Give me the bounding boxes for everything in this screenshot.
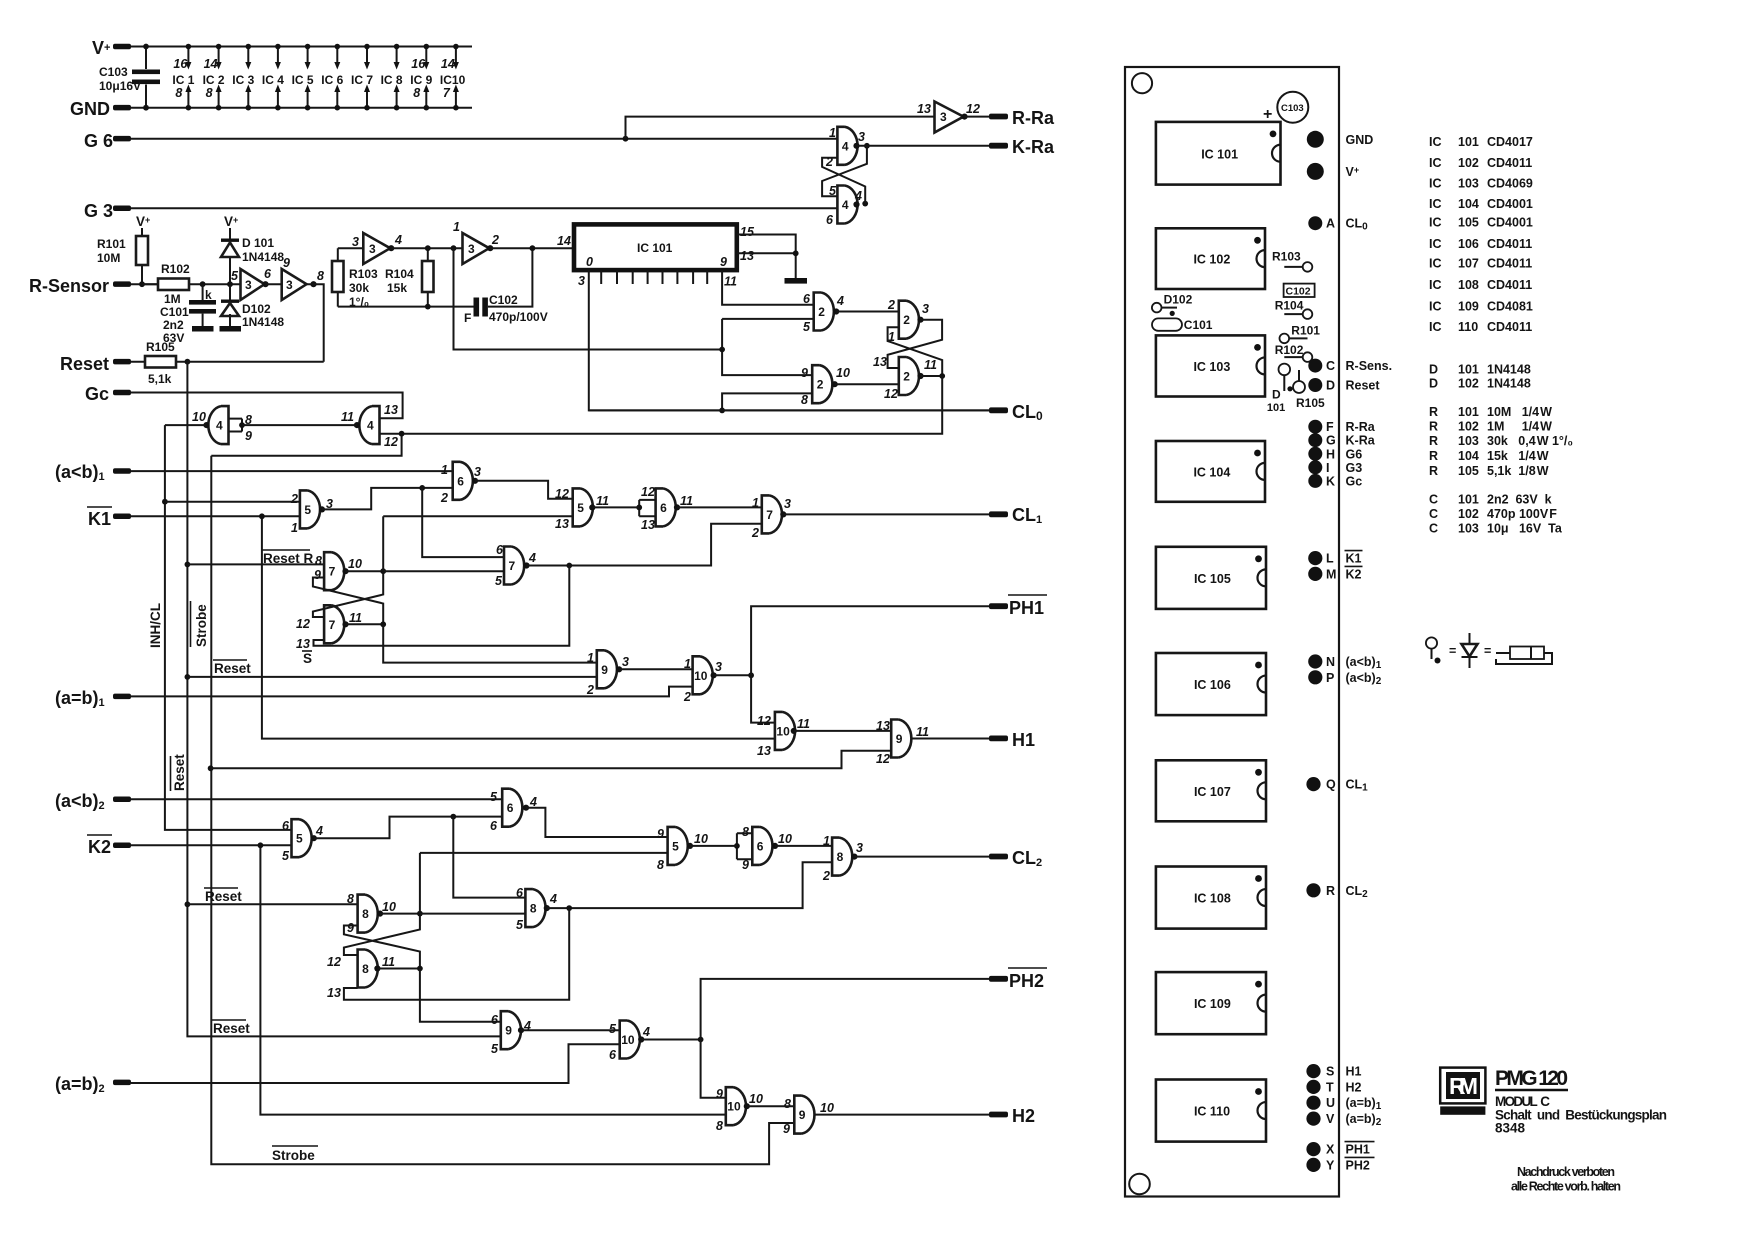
svg-text:R102: R102 xyxy=(161,262,190,276)
node gate output xyxy=(674,504,680,510)
gate IC4 1-2-3 NAND xyxy=(837,127,857,165)
wire 7a up to 5b xyxy=(382,516,384,571)
svg-text:7: 7 xyxy=(443,86,451,100)
svg-text:8: 8 xyxy=(657,858,664,872)
wire 6c tap down xyxy=(453,817,525,898)
svg-text:11: 11 xyxy=(596,494,609,508)
pad F xyxy=(1308,420,1322,434)
svg-text:CD4017: CD4017 xyxy=(1487,135,1533,149)
pad A xyxy=(1308,216,1322,230)
svg-text:13: 13 xyxy=(876,719,890,733)
wire C102 right xyxy=(488,248,533,306)
svg-text:2: 2 xyxy=(491,233,499,247)
svg-text:5: 5 xyxy=(282,849,290,863)
gate IC6 12-13-11 NAND xyxy=(656,488,676,526)
svg-text:102: 102 xyxy=(1458,420,1479,434)
wire pin3 to CL0 xyxy=(589,270,989,410)
svg-text:8: 8 xyxy=(175,86,182,100)
svg-text:2: 2 xyxy=(683,690,691,704)
pad D xyxy=(1308,378,1322,392)
svg-text:Reset: Reset xyxy=(205,889,242,904)
svg-text:0: 0 xyxy=(586,255,593,269)
svg-text:R103: R103 xyxy=(1272,250,1301,264)
node sb1 xyxy=(208,765,214,771)
wire osc in xyxy=(338,247,364,249)
svg-text:14: 14 xyxy=(204,57,218,71)
wire reset to inv xyxy=(187,361,323,363)
svg-text:13: 13 xyxy=(384,403,398,417)
svg-text:D: D xyxy=(1326,379,1335,393)
IC4 power pins xyxy=(277,47,279,108)
node gate output xyxy=(687,843,693,849)
node K1 tap xyxy=(259,513,265,519)
svg-text:10M: 10M xyxy=(97,251,120,265)
svg-text:Nachdruck verboten: Nachdruck verboten xyxy=(1517,1165,1615,1179)
svg-text:S: S xyxy=(1326,1065,1334,1079)
gate IC8 8-9-10 NAND xyxy=(358,895,378,933)
svg-text:103: 103 xyxy=(1458,522,1479,536)
node gate output xyxy=(472,478,478,484)
svg-text:11: 11 xyxy=(341,410,354,424)
board hole bottom xyxy=(1129,1174,1150,1195)
capacitor C102 xyxy=(474,298,480,317)
svg-text:IC: IC xyxy=(1429,135,1442,149)
gate IC10 12-13-11 NAND xyxy=(775,712,795,750)
svg-text:5: 5 xyxy=(296,832,303,846)
svg-text:IC: IC xyxy=(1429,237,1442,251)
svg-text:10: 10 xyxy=(749,1092,763,1106)
node gate output xyxy=(744,1103,750,1109)
svg-text:11: 11 xyxy=(797,717,810,731)
svg-text:G: G xyxy=(1326,434,1336,448)
node 6d in xyxy=(734,843,740,849)
svg-text:R104: R104 xyxy=(385,267,414,281)
gate IC7 1-2-3 NAND xyxy=(762,495,782,533)
svg-text:I: I xyxy=(1326,461,1329,475)
gate IC5 6-5-4 NAND xyxy=(292,819,312,857)
svg-text:6: 6 xyxy=(507,801,514,815)
svg-text:5: 5 xyxy=(490,790,498,804)
svg-text:M: M xyxy=(1326,567,1336,581)
svg-text:H2: H2 xyxy=(1012,1106,1035,1126)
gate IC2 9-8-10 NAND xyxy=(812,365,832,403)
wire pin11 xyxy=(722,270,814,305)
svg-text:CD4011: CD4011 xyxy=(1487,278,1532,292)
gate IC4 5-4-6 NAND xyxy=(837,186,857,224)
node inh tap xyxy=(162,499,168,505)
svg-text:5: 5 xyxy=(577,501,584,515)
svg-text:4: 4 xyxy=(394,233,402,247)
wire 9a out xyxy=(619,668,693,670)
IC101 bottom pins xyxy=(601,270,707,284)
gate IC5 12-13-11 NAND xyxy=(573,488,593,526)
svg-text:9: 9 xyxy=(283,256,290,270)
svg-text:9: 9 xyxy=(716,1087,723,1101)
node 6b in xyxy=(636,505,642,511)
wire 7c loop to 7b13 xyxy=(314,566,570,646)
svg-text:2: 2 xyxy=(751,526,759,540)
svg-text:3: 3 xyxy=(856,841,863,855)
pad P xyxy=(1308,670,1322,684)
svg-text:CD4011: CD4011 xyxy=(1487,257,1532,271)
svg-text:K-Ra: K-Ra xyxy=(1346,434,1376,448)
wire 9c out xyxy=(521,1029,620,1031)
svg-text:Reset: Reset xyxy=(213,1021,250,1036)
wire 9b pin12 xyxy=(211,751,892,769)
svg-text:D102: D102 xyxy=(242,302,271,316)
wire node down xyxy=(454,248,723,349)
svg-text:IC: IC xyxy=(1429,177,1442,191)
svg-text:L: L xyxy=(1326,552,1334,566)
svg-text:109: 109 xyxy=(1458,300,1479,314)
node gate output xyxy=(388,245,394,251)
IC IC101 CD4017 xyxy=(574,224,737,270)
svg-text:6: 6 xyxy=(757,839,764,853)
svg-text:(a<b)1: (a<b)1 xyxy=(55,462,105,483)
wire pin14 node to gates xyxy=(722,319,814,375)
node gate output xyxy=(311,835,317,841)
pad G xyxy=(1308,433,1322,447)
svg-text:101: 101 xyxy=(1458,363,1479,377)
svg-text:4: 4 xyxy=(528,551,536,565)
wire 6d tie xyxy=(737,833,752,859)
svg-text:4: 4 xyxy=(216,419,223,433)
wire 6a out xyxy=(475,481,573,499)
svg-text:103: 103 xyxy=(1458,177,1479,191)
wire a=b2 line xyxy=(131,1044,620,1083)
svg-text:12: 12 xyxy=(884,387,898,401)
svg-text:INH/CL: INH/CL xyxy=(148,603,163,648)
gate IC7 6-5-4 NAND xyxy=(504,547,524,585)
svg-text:3: 3 xyxy=(858,130,865,144)
svg-text:IC 107: IC 107 xyxy=(1194,785,1231,799)
svg-text:C101: C101 xyxy=(1184,318,1213,332)
svg-text:8: 8 xyxy=(530,902,537,916)
svg-text:1: 1 xyxy=(441,463,448,477)
wire G3 line xyxy=(131,207,837,209)
svg-text:A: A xyxy=(1326,217,1335,231)
wire a=b1 line xyxy=(131,687,693,697)
svg-text:(a=b)1: (a=b)1 xyxy=(55,688,105,709)
svg-text:Gc: Gc xyxy=(1346,474,1363,488)
gate IC5 9-8-10 NAND xyxy=(668,827,688,865)
legend diode symbol xyxy=(1469,633,1471,668)
wire Reset bus xyxy=(187,362,500,1037)
svg-text:F: F xyxy=(1326,420,1334,434)
svg-text:2: 2 xyxy=(817,378,824,392)
svg-text:6: 6 xyxy=(516,886,524,900)
node gate output xyxy=(342,568,348,574)
wire gateB pin8 xyxy=(722,393,812,410)
svg-text:4: 4 xyxy=(836,294,844,308)
svg-text:PH1: PH1 xyxy=(1009,598,1044,618)
svg-text:9: 9 xyxy=(799,1108,806,1122)
ground xyxy=(785,278,808,284)
wire 8a to 5d pin8 xyxy=(420,852,668,854)
svg-text:14: 14 xyxy=(557,234,571,248)
svg-text:IC: IC xyxy=(1429,156,1442,170)
pad C xyxy=(1308,359,1322,373)
PCB board outline xyxy=(1125,67,1339,1197)
svg-text:105: 105 xyxy=(1458,464,1479,478)
svg-text:106: 106 xyxy=(1458,237,1479,251)
IC IC105 footprint xyxy=(1156,547,1266,609)
svg-text:R104: R104 xyxy=(1275,299,1304,313)
svg-text:R101: R101 xyxy=(97,237,126,251)
svg-text:6: 6 xyxy=(264,267,272,281)
inverter IC3 1-2 xyxy=(463,233,490,264)
svg-text:8: 8 xyxy=(362,962,369,976)
svg-text:10: 10 xyxy=(694,669,708,683)
svg-text:2: 2 xyxy=(887,298,895,312)
wire 6b out xyxy=(677,506,762,508)
svg-text:C102: C102 xyxy=(489,293,518,307)
gate IC4 11-13-12 NAND left xyxy=(359,406,379,444)
svg-text:13: 13 xyxy=(873,355,887,369)
wire H2 out xyxy=(814,1114,989,1116)
gate IC2 6-5-4 NAND xyxy=(814,293,834,331)
svg-text:6: 6 xyxy=(282,819,290,833)
svg-text:R-Ra: R-Ra xyxy=(1012,108,1055,128)
IC8 power pins xyxy=(396,47,398,108)
IC3 power pins xyxy=(247,47,249,108)
gate IC9 8-9-10 NAND xyxy=(794,1096,814,1134)
svg-text:D 101: D 101 xyxy=(242,236,274,250)
pad R xyxy=(1306,883,1320,897)
svg-text:PH2: PH2 xyxy=(1009,971,1044,991)
svg-text:IC 110: IC 110 xyxy=(1194,1105,1230,1119)
node C102 top xyxy=(530,245,536,251)
svg-text:C103: C103 xyxy=(1281,103,1304,114)
capacitor C103 footprint xyxy=(1277,92,1308,123)
capacitor C101 footprint xyxy=(1152,318,1182,330)
wire PH1 out xyxy=(751,606,989,675)
IC7 power pins xyxy=(366,47,368,108)
svg-text:R: R xyxy=(1429,405,1438,419)
svg-text:IC 3: IC 3 xyxy=(232,73,254,87)
svg-text:S: S xyxy=(303,651,312,666)
wire clock to IC101 xyxy=(490,247,574,249)
svg-text:IC: IC xyxy=(1429,197,1442,211)
svg-text:5: 5 xyxy=(231,269,239,283)
svg-text:10μ 16V Ta: 10μ 16V Ta xyxy=(1487,522,1563,536)
svg-text:3: 3 xyxy=(784,497,791,511)
diode D101 xyxy=(229,228,231,284)
svg-text:3: 3 xyxy=(622,655,629,669)
svg-text:1N4148: 1N4148 xyxy=(1487,377,1531,391)
svg-text:D: D xyxy=(1429,377,1438,391)
node gate output xyxy=(589,504,595,510)
svg-text:IC 1: IC 1 xyxy=(172,73,194,87)
svg-text:Gc: Gc xyxy=(85,384,109,404)
node gate output xyxy=(961,114,967,120)
wire 6a tap down xyxy=(422,488,504,557)
wire 8a to 8d pin5 xyxy=(420,913,526,915)
inverter IC3 5-6 xyxy=(241,269,265,300)
svg-text:5: 5 xyxy=(672,839,679,853)
node gate output xyxy=(638,1036,644,1042)
svg-text:7: 7 xyxy=(329,565,336,579)
svg-text:D: D xyxy=(1272,388,1281,402)
svg-text:1: 1 xyxy=(684,657,691,671)
wire 2B out xyxy=(835,383,899,385)
wire latch to 4gates xyxy=(211,376,942,456)
node K2 tap xyxy=(258,842,264,848)
svg-text:9: 9 xyxy=(505,1024,512,1038)
pad V+ xyxy=(1307,163,1324,180)
node PH2 node xyxy=(698,1037,704,1043)
node gate output xyxy=(772,843,778,849)
svg-text:IC 9: IC 9 xyxy=(410,73,432,87)
svg-text:11: 11 xyxy=(680,494,693,508)
node R104 top xyxy=(425,245,431,251)
svg-text:F: F xyxy=(464,311,471,325)
wire R-Sensor line xyxy=(131,283,157,285)
pad H xyxy=(1308,447,1322,461)
pad L xyxy=(1308,551,1322,565)
svg-text:R: R xyxy=(1429,464,1438,478)
svg-text:IC: IC xyxy=(1429,300,1442,314)
IC IC102 footprint xyxy=(1156,228,1265,289)
node gate output xyxy=(544,905,550,911)
svg-text:9: 9 xyxy=(314,568,321,582)
svg-text:9: 9 xyxy=(783,1122,790,1136)
svg-text:101: 101 xyxy=(1458,493,1479,507)
svg-text:R102: R102 xyxy=(1275,343,1304,357)
svg-text:2: 2 xyxy=(290,492,298,506)
wire INH/CL bus xyxy=(165,425,292,830)
gate IC9 1-2-3 NAND xyxy=(597,650,617,688)
svg-text:4: 4 xyxy=(549,892,557,906)
node gate output xyxy=(374,965,380,971)
svg-text:14: 14 xyxy=(441,57,455,71)
IC IC101 footprint xyxy=(1156,122,1281,185)
IC IC107 footprint xyxy=(1156,760,1266,821)
svg-text:Strobe: Strobe xyxy=(272,1148,315,1163)
wire G6 line xyxy=(131,138,837,140)
resistor R101 xyxy=(141,228,143,284)
node inv4 in xyxy=(451,245,457,251)
wire K1 line xyxy=(131,515,300,517)
svg-text:4: 4 xyxy=(854,189,862,203)
gate IC7 8-9-10 NAND xyxy=(324,552,344,590)
svg-text:9: 9 xyxy=(896,732,903,746)
wire 5b to 6b xyxy=(592,506,639,508)
wire Reset line3 xyxy=(187,903,357,905)
svg-text:R101: R101 xyxy=(1291,324,1320,338)
svg-text:12: 12 xyxy=(296,617,310,631)
svg-text:2: 2 xyxy=(822,869,830,883)
svg-text:5,1k 1/8 W: 5,1k 1/8 W xyxy=(1487,464,1549,478)
svg-text:4: 4 xyxy=(842,198,849,212)
svg-text:3: 3 xyxy=(474,465,481,479)
capacitor C103 xyxy=(145,47,147,108)
IC9 power pins xyxy=(425,47,427,108)
wire 6d out xyxy=(775,845,832,847)
wire CL2 out xyxy=(854,856,989,858)
node PH1 node xyxy=(748,672,754,678)
wire 10e out xyxy=(747,1105,795,1107)
svg-text:PH1: PH1 xyxy=(1346,1143,1370,1157)
svg-text:7: 7 xyxy=(509,559,516,573)
svg-text:15k 1/4 W: 15k 1/4 W xyxy=(1487,449,1549,463)
svg-text:12: 12 xyxy=(876,752,890,766)
svg-text:K1: K1 xyxy=(88,509,111,529)
node G6 tap xyxy=(623,136,629,142)
svg-text:12: 12 xyxy=(555,487,569,501)
svg-text:12: 12 xyxy=(641,485,655,499)
wire osc bottom rail xyxy=(338,306,474,308)
svg-text:12: 12 xyxy=(384,435,398,449)
gate IC7 12-13-11 NAND xyxy=(324,605,344,643)
node gate output xyxy=(354,422,360,428)
wire 7a to 7c pin5 xyxy=(383,570,504,572)
svg-text:3: 3 xyxy=(245,278,252,292)
gate IC8 6-5-4 NAND xyxy=(525,889,545,927)
wire osc mid xyxy=(391,247,462,249)
svg-text:GND: GND xyxy=(1346,133,1374,147)
svg-text:(a=b)2: (a=b)2 xyxy=(55,1074,105,1095)
svg-text:30k 0,4 W 1°/₀: 30k 0,4 W 1°/₀ xyxy=(1487,434,1573,448)
svg-text:8: 8 xyxy=(837,850,844,864)
IC5 power pins xyxy=(307,47,309,108)
svg-text:101: 101 xyxy=(1458,135,1479,149)
svg-text:4: 4 xyxy=(842,139,849,153)
svg-text:8: 8 xyxy=(317,269,324,283)
svg-text:9: 9 xyxy=(801,366,808,380)
wire K2 line xyxy=(131,844,292,846)
svg-text:N: N xyxy=(1326,655,1335,669)
svg-text:13: 13 xyxy=(296,637,310,651)
node gate output xyxy=(851,854,857,860)
svg-text:IC 109: IC 109 xyxy=(1194,997,1231,1011)
svg-text:Reset: Reset xyxy=(1346,379,1381,393)
node pin12 node xyxy=(399,431,405,437)
gate IC6 1-2-3 NAND xyxy=(453,462,473,500)
gate IC10 1-2-3 NAND xyxy=(693,656,713,694)
svg-text:R103: R103 xyxy=(349,267,378,281)
svg-text:C101: C101 xyxy=(160,305,189,319)
svg-text:GND: GND xyxy=(70,99,110,119)
svg-text:10: 10 xyxy=(694,832,708,846)
svg-text:IC 102: IC 102 xyxy=(1193,253,1230,267)
wire G6 up xyxy=(626,117,935,139)
pad T xyxy=(1306,1080,1320,1094)
IC2 power pins xyxy=(218,47,220,108)
svg-text:Reset: Reset xyxy=(214,661,251,676)
wire 10d out xyxy=(641,1039,700,1041)
node gate output xyxy=(523,805,529,811)
wire a<b1 line xyxy=(131,470,453,472)
svg-text:8: 8 xyxy=(413,86,420,100)
svg-text:104: 104 xyxy=(1458,197,1479,211)
node D node xyxy=(227,281,233,287)
svg-text:5: 5 xyxy=(304,503,311,517)
wire K-Ra out xyxy=(857,145,990,147)
svg-text:8: 8 xyxy=(206,86,213,100)
svg-text:12: 12 xyxy=(966,102,980,116)
svg-text:H1: H1 xyxy=(1012,730,1035,750)
svg-text:103: 103 xyxy=(1458,434,1479,448)
svg-text:2: 2 xyxy=(818,305,825,319)
svg-text:2n2 63V k: 2n2 63V k xyxy=(1487,493,1552,507)
svg-text:K1: K1 xyxy=(1346,552,1362,566)
svg-text:H2: H2 xyxy=(1346,1080,1362,1094)
svg-text:IC: IC xyxy=(1429,278,1442,292)
wire latch CD cross xyxy=(888,320,943,376)
node gate output xyxy=(832,381,838,387)
svg-text:IC 108: IC 108 xyxy=(1194,892,1231,906)
